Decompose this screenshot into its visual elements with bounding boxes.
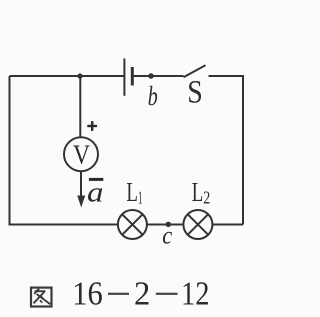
svg-text:S: S	[187, 74, 203, 110]
svg-text:L: L	[126, 177, 137, 207]
svg-text:a: a	[87, 177, 104, 209]
svg-text:c: c	[162, 222, 172, 249]
svg-text:16: 16	[72, 276, 103, 313]
svg-text:L: L	[192, 177, 204, 207]
svg-text:1: 1	[138, 188, 143, 208]
svg-text:12: 12	[181, 276, 210, 313]
svg-text:b: b	[148, 81, 158, 111]
svg-text:V: V	[73, 139, 90, 169]
svg-text:2: 2	[134, 276, 150, 313]
svg-text:2: 2	[203, 188, 210, 208]
